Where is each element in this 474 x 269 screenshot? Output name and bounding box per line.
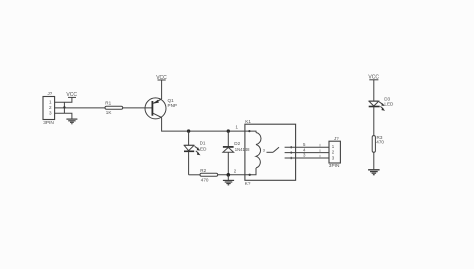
svg-text:1N4148: 1N4148 [235, 147, 250, 152]
resistor R2 [200, 168, 218, 183]
connector J1 [43, 97, 55, 120]
wire bottom into relay coil [246, 168, 256, 175]
power VCC (above Q1) [156, 75, 167, 81]
relay switch lever [273, 147, 279, 152]
connector J2 [329, 141, 340, 163]
wire VCC to D3 [373, 80, 375, 101]
svg-text:J?: J? [48, 91, 53, 96]
svg-text:1K: 1K [106, 110, 113, 115]
wire Q1 emitter to VCC [161, 80, 163, 99]
svg-text:3: 3 [49, 110, 52, 115]
relay contact line pin3 [285, 153, 329, 160]
svg-text:3: 3 [263, 148, 265, 152]
svg-text:470: 470 [201, 178, 209, 183]
junction dot on pin2 wire [63, 106, 65, 108]
junction dot at D1 top [187, 129, 190, 132]
ground (left, under J1) [66, 119, 77, 124]
svg-text:2: 2 [49, 105, 52, 110]
svg-text:3PIN: 3PIN [43, 120, 54, 126]
junction dot at D2 bottom [227, 173, 231, 177]
svg-text:LED: LED [198, 146, 208, 151]
relay coil [256, 133, 261, 169]
power VCC (right) [368, 75, 379, 81]
svg-text:K1: K1 [245, 119, 251, 124]
svg-text:470: 470 [376, 140, 384, 145]
svg-text:D1: D1 [200, 140, 206, 145]
wire R3 to ground [373, 152, 375, 169]
svg-text:R1: R1 [105, 100, 111, 105]
wire J1 pin3 to ground [55, 113, 72, 118]
diode D2 1N4148 [223, 131, 250, 175]
LED D3 [369, 96, 394, 110]
junction dot relay pin2 [249, 174, 251, 176]
resistor R3 [372, 135, 384, 152]
wire J1 pin2 to R1 [55, 107, 105, 109]
wire J1 vertical tie across pins [63, 102, 65, 113]
wire R1 to Q1 base [123, 107, 152, 109]
wire Q1 collector down [162, 118, 246, 132]
relay switch pivot stub [267, 151, 274, 153]
junction dot at D2 top [227, 129, 230, 132]
ground (under D2) [223, 175, 234, 185]
LED D1 [184, 131, 207, 175]
resistor R1 [105, 100, 123, 115]
J2 pin stub ticks [319, 144, 321, 158]
transistor Q1 PNP [145, 98, 177, 119]
ground (right) [368, 170, 380, 175]
svg-text:LED: LED [384, 102, 394, 107]
wire top into relay coil [246, 131, 256, 132]
junction dot relay pin1 [248, 130, 250, 132]
svg-text:K?: K? [245, 181, 251, 186]
relay K1 box [245, 124, 296, 180]
wire J1 pin1 to VCC [55, 97, 72, 102]
svg-text:3PIN: 3PIN [329, 163, 340, 169]
svg-text:R2: R2 [200, 168, 206, 173]
svg-text:1: 1 [49, 99, 52, 104]
svg-text:D2: D2 [234, 141, 240, 146]
power VCC (left) [66, 92, 77, 98]
svg-text:J?: J? [334, 136, 339, 141]
wire R2 to D2 bottom and relay [218, 174, 246, 176]
svg-text:PNP: PNP [168, 103, 177, 108]
relay contact line pin4 [285, 147, 329, 153]
relay contact line pin5 [285, 142, 329, 149]
wire bottom left from D1 [189, 174, 200, 176]
wire D3 to R3 [373, 107, 375, 136]
